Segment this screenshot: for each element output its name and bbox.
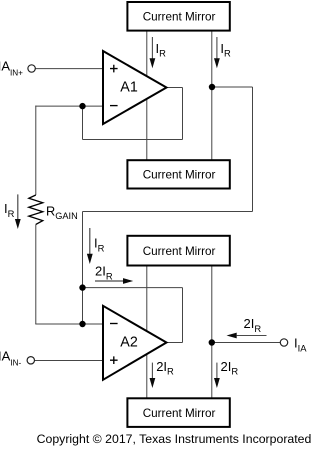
- current arrow 2IR (bottom-left leg): [150, 363, 156, 388]
- wire: corner to A2 - input: [35, 323, 103, 325]
- node: right column junction: [209, 84, 215, 90]
- wire: IA_IN- terminal to A2 + input: [35, 360, 104, 362]
- terminal IA_IN+: [28, 65, 35, 72]
- current arrow 2IR (into A2 feedback, pointing right): [95, 278, 133, 284]
- node: A1 inverting input junction: [79, 103, 85, 109]
- wire: left vertical from y=211 down to A2 - node: [82, 212, 84, 325]
- A1 + input symbol: [110, 65, 118, 73]
- wire: top mirror left leg through A1 to second mirror: [146, 31, 148, 160]
- svg-text:Current Mirror: Current Mirror: [143, 245, 216, 258]
- wire: right column vertical down: [252, 87, 254, 212]
- svg-text:Copyright © 2017, Texas Instru: Copyright © 2017, Texas Instruments Inco…: [37, 432, 312, 446]
- wire: long horizontal at y=211 to left column: [83, 211, 253, 213]
- wire: output node to I_IA terminal: [212, 342, 281, 344]
- node: A2 inverting input junction: [79, 321, 85, 327]
- svg-text:A1: A1: [120, 79, 138, 95]
- wire: right node horizontal to right column: [212, 86, 253, 88]
- wire: A1 output tip to feedback corner: [167, 87, 183, 89]
- current arrow 2IR (from I_IA terminal, pointing left): [227, 333, 267, 339]
- wire: R_GAIN bottom down to A2 - corner: [35, 224, 37, 324]
- wire: A2 feedback right vertical down to output: [182, 288, 184, 343]
- A2 - input symbol: [110, 323, 118, 325]
- wire: A1 feedback right vertical up to output: [182, 88, 184, 140]
- current arrow IR (top-left leg): [150, 37, 156, 68]
- op-amp A1: [103, 51, 167, 124]
- current mirror box CM2: [127, 160, 229, 188]
- wire: A1 - input horizontal from left corner: [35, 105, 103, 107]
- svg-text:Current Mirror: Current Mirror: [143, 169, 216, 182]
- wire: A1 feedback vertical from - node down: [82, 106, 84, 140]
- svg-text:A2: A2: [120, 334, 138, 350]
- wire: A1 feedback bottom horizontal: [83, 139, 183, 141]
- current arrow IR (left column into A2 node): [87, 228, 93, 264]
- svg-text:Current Mirror: Current Mirror: [143, 407, 216, 420]
- wire: third mirror left leg through A2 to bottom mirror: [146, 266, 148, 399]
- resistor R_GAIN: [29, 195, 43, 224]
- terminal I_IA: [280, 339, 287, 346]
- wire: IA_IN+ terminal to A1 + input: [35, 68, 103, 70]
- wire: third mirror right leg to bottom mirror: [211, 266, 213, 399]
- current mirror box CM3: [127, 236, 229, 266]
- wire: top mirror right leg to second mirror: [211, 31, 213, 160]
- A2 + input symbol: [110, 356, 118, 364]
- wire: left column down to R_GAIN top: [35, 106, 37, 195]
- current arrow IR (R_GAIN): [15, 194, 21, 229]
- current mirror box CM4 (bottom): [127, 398, 229, 427]
- A1 - input symbol: [110, 105, 118, 107]
- wire: A2 output tip to feedback corner: [167, 342, 183, 344]
- op-amp A2: [103, 306, 167, 380]
- svg-text:Current Mirror: Current Mirror: [143, 11, 216, 24]
- current arrow IR (top-right leg): [214, 37, 220, 68]
- wire: A2 feedback top horizontal: [83, 287, 183, 289]
- node: output junction: [209, 339, 215, 345]
- current arrow 2IR (bottom-right leg): [214, 363, 220, 388]
- terminal IA_IN-: [27, 357, 34, 364]
- current mirror box CM1 (top): [127, 2, 229, 31]
- node: A2 feedback junction: [79, 284, 85, 290]
